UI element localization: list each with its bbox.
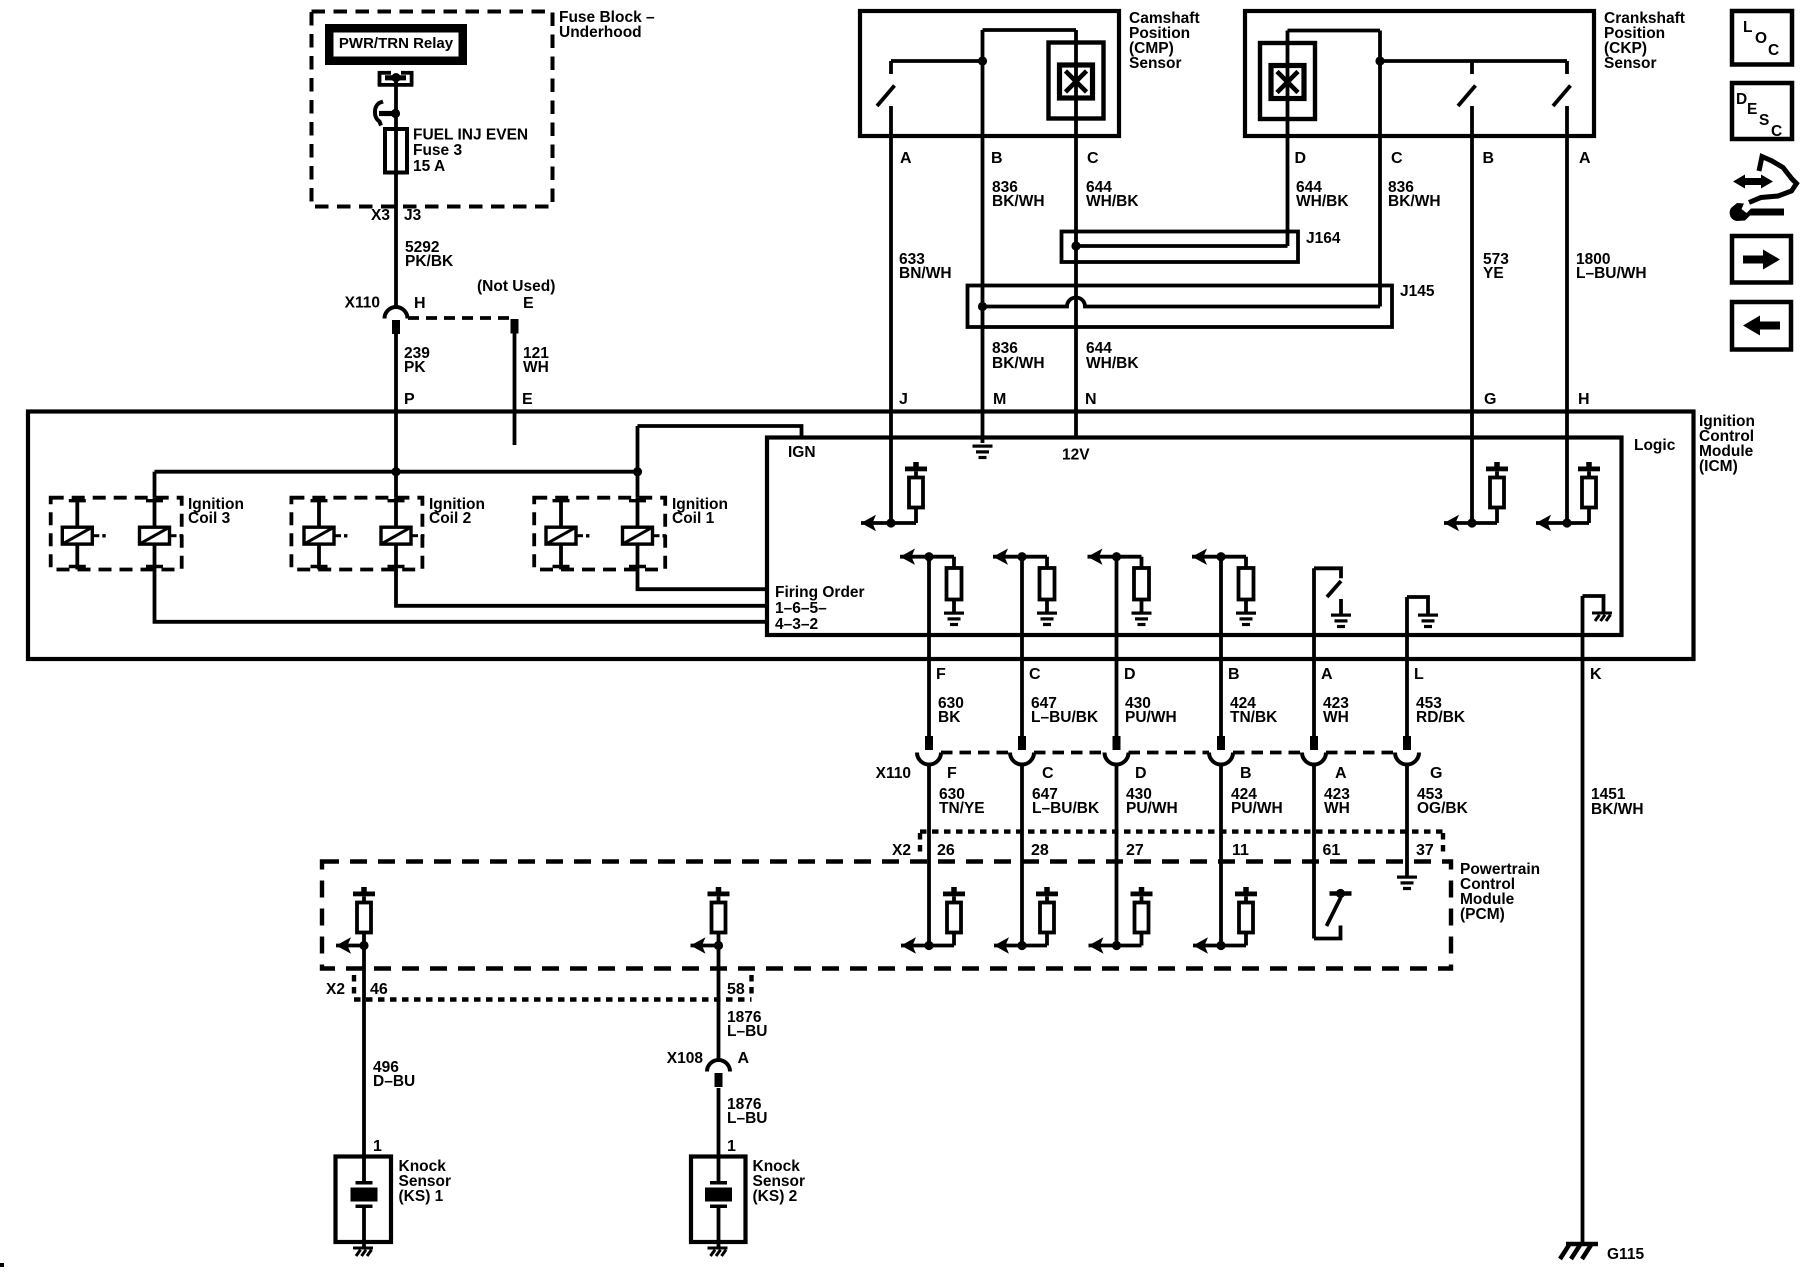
svg-text:11: 11 xyxy=(1232,842,1249,859)
svg-text:J164: J164 xyxy=(1306,230,1341,247)
svg-text:A: A xyxy=(900,150,912,167)
svg-text:S: S xyxy=(1759,112,1769,129)
svg-text:J: J xyxy=(899,391,908,408)
svg-text:C: C xyxy=(1042,765,1054,782)
svg-text:37: 37 xyxy=(1416,842,1434,859)
svg-text:Fuse 3: Fuse 3 xyxy=(413,142,462,159)
svg-text:A: A xyxy=(1321,666,1333,683)
svg-text:PWR/TRN Relay: PWR/TRN Relay xyxy=(339,35,454,52)
svg-text:D–BU: D–BU xyxy=(373,1073,415,1090)
svg-text:X3: X3 xyxy=(371,207,390,224)
svg-text:F: F xyxy=(947,765,957,782)
svg-text:BK: BK xyxy=(938,709,961,726)
svg-text:FUEL INJ EVEN: FUEL INJ EVEN xyxy=(413,127,528,144)
svg-text:RD/BK: RD/BK xyxy=(1416,709,1466,726)
svg-text:PU/WH: PU/WH xyxy=(1125,709,1177,726)
svg-text:WH/BK: WH/BK xyxy=(1086,193,1139,210)
svg-text:PK/BK: PK/BK xyxy=(405,253,454,270)
svg-text:C: C xyxy=(1029,666,1041,683)
svg-text:BK/WH: BK/WH xyxy=(992,193,1045,210)
svg-text:(PCM): (PCM) xyxy=(1460,906,1505,923)
svg-text:TN/YE: TN/YE xyxy=(939,800,985,817)
svg-text:A: A xyxy=(738,1050,750,1067)
svg-text:WH: WH xyxy=(523,359,549,376)
svg-text:F: F xyxy=(936,666,946,683)
svg-text:A: A xyxy=(1579,150,1591,167)
svg-text:46: 46 xyxy=(370,981,388,998)
svg-text:L–BU: L–BU xyxy=(727,1023,767,1040)
svg-text:H: H xyxy=(1578,391,1590,408)
svg-text:G: G xyxy=(1484,391,1496,408)
svg-text:E: E xyxy=(523,295,534,312)
svg-text:Sensor: Sensor xyxy=(1129,55,1182,72)
svg-text:X108: X108 xyxy=(667,1050,704,1067)
svg-text:B: B xyxy=(1483,150,1495,167)
svg-text:C: C xyxy=(1771,123,1782,140)
svg-text:A: A xyxy=(1335,765,1347,782)
svg-text:B: B xyxy=(1228,666,1240,683)
svg-text:YE: YE xyxy=(1483,265,1504,282)
svg-text:X2: X2 xyxy=(892,842,911,859)
svg-text:OG/BK: OG/BK xyxy=(1417,800,1469,817)
svg-text:Underhood: Underhood xyxy=(559,24,642,41)
svg-text:BN/WH: BN/WH xyxy=(899,265,952,282)
svg-text:C: C xyxy=(1087,150,1099,167)
svg-text:4–3–2: 4–3–2 xyxy=(775,616,818,633)
svg-text:D: D xyxy=(1736,91,1747,108)
svg-text:Coil 3: Coil 3 xyxy=(188,510,231,527)
svg-text:15 A: 15 A xyxy=(413,158,445,175)
svg-text:E: E xyxy=(1747,101,1757,118)
svg-text:L–BU/WH: L–BU/WH xyxy=(1576,265,1647,282)
svg-text:B: B xyxy=(1240,765,1252,782)
svg-text:PK: PK xyxy=(404,359,426,376)
svg-text:1: 1 xyxy=(727,1138,736,1155)
svg-text:BK/WH: BK/WH xyxy=(1388,193,1441,210)
svg-text:G: G xyxy=(1430,765,1442,782)
svg-text:D: D xyxy=(1295,150,1307,167)
svg-text:1–6–5–: 1–6–5– xyxy=(775,600,827,617)
svg-text:WH/BK: WH/BK xyxy=(1296,193,1349,210)
svg-text:J145: J145 xyxy=(1400,283,1435,300)
svg-text:Coil 1: Coil 1 xyxy=(672,510,715,527)
svg-text:C: C xyxy=(1391,150,1403,167)
svg-text:(ICM): (ICM) xyxy=(1699,458,1738,475)
svg-text:1: 1 xyxy=(373,1138,382,1155)
svg-text:27: 27 xyxy=(1126,842,1144,859)
svg-text:O: O xyxy=(1755,30,1767,47)
svg-text:M: M xyxy=(993,391,1006,408)
svg-text:PU/WH: PU/WH xyxy=(1126,800,1178,817)
svg-text:BK/WH: BK/WH xyxy=(992,355,1045,372)
svg-text:WH/BK: WH/BK xyxy=(1086,355,1139,372)
svg-text:Sensor: Sensor xyxy=(1604,55,1657,72)
svg-text:BK/WH: BK/WH xyxy=(1591,801,1644,818)
svg-text:L: L xyxy=(1414,666,1424,683)
svg-text:D: D xyxy=(1124,666,1136,683)
svg-text:E: E xyxy=(522,391,533,408)
svg-text:Logic: Logic xyxy=(1634,437,1676,454)
svg-text:L–BU/BK: L–BU/BK xyxy=(1032,800,1100,817)
svg-text:Coil 2: Coil 2 xyxy=(429,510,471,527)
svg-text:12V: 12V xyxy=(1062,447,1090,464)
svg-text:(KS) 1: (KS) 1 xyxy=(399,1188,444,1205)
svg-text:P: P xyxy=(404,391,415,408)
svg-text:L: L xyxy=(1743,19,1752,36)
svg-text:Firing Order: Firing Order xyxy=(775,584,865,601)
svg-text:C: C xyxy=(1768,42,1779,59)
svg-text:TN/BK: TN/BK xyxy=(1230,709,1278,726)
svg-text:L–BU/BK: L–BU/BK xyxy=(1031,709,1099,726)
svg-text:58: 58 xyxy=(727,981,745,998)
svg-text:WH: WH xyxy=(1324,800,1350,817)
svg-text:X110: X110 xyxy=(876,765,911,782)
svg-text:26: 26 xyxy=(937,842,955,859)
svg-text:J3: J3 xyxy=(404,207,422,224)
svg-text:H: H xyxy=(414,295,426,312)
svg-text:B: B xyxy=(991,150,1003,167)
svg-text:IGN: IGN xyxy=(788,444,816,461)
svg-text:X110: X110 xyxy=(345,295,380,312)
svg-text:28: 28 xyxy=(1031,842,1049,859)
svg-text:(KS) 2: (KS) 2 xyxy=(753,1188,798,1205)
svg-text:L–BU: L–BU xyxy=(727,1110,767,1127)
svg-text:(Not Used): (Not Used) xyxy=(477,278,555,295)
svg-text:N: N xyxy=(1085,391,1097,408)
svg-text:X2: X2 xyxy=(326,981,345,998)
svg-text:PU/WH: PU/WH xyxy=(1231,800,1283,817)
svg-text:G115: G115 xyxy=(1607,1246,1644,1263)
svg-text:61: 61 xyxy=(1323,842,1341,859)
svg-text:D: D xyxy=(1135,765,1147,782)
svg-text:K: K xyxy=(1590,666,1602,683)
svg-text:WH: WH xyxy=(1323,709,1349,726)
